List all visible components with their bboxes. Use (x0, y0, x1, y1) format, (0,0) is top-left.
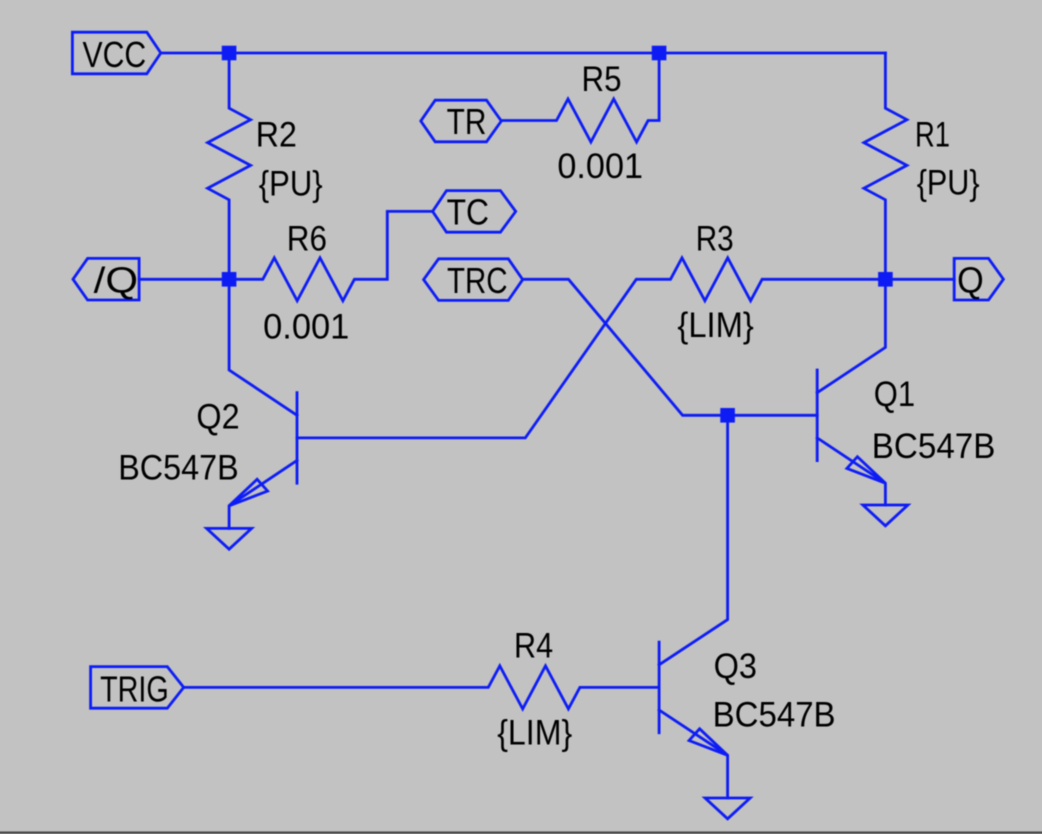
svg-text:0.001: 0.001 (557, 147, 643, 186)
svg-text:{PU}: {PU} (259, 164, 323, 203)
svg-text:Q2: Q2 (196, 398, 239, 437)
svg-text:TRC: TRC (447, 260, 508, 301)
svg-text:TR: TR (447, 101, 487, 142)
svg-text:BC547B: BC547B (713, 696, 836, 735)
svg-text:BC547B: BC547B (118, 448, 239, 487)
svg-text:Q: Q (957, 259, 984, 300)
svg-text:{LIM}: {LIM} (497, 714, 572, 753)
svg-text:R1: R1 (915, 116, 950, 155)
svg-text:TRIG: TRIG (100, 668, 169, 709)
svg-text:R3: R3 (696, 220, 734, 259)
svg-text:R4: R4 (514, 627, 553, 666)
svg-text:BC547B: BC547B (872, 427, 996, 466)
svg-text:{LIM}: {LIM} (677, 306, 754, 345)
svg-text:TC: TC (447, 191, 489, 232)
svg-text:VCC: VCC (83, 34, 147, 75)
svg-text:0.001: 0.001 (263, 307, 349, 346)
svg-text:R2: R2 (256, 116, 297, 155)
svg-text:R6: R6 (287, 219, 327, 258)
svg-text:Q1: Q1 (874, 375, 915, 414)
svg-text:/Q: /Q (94, 259, 138, 300)
svg-text:R5: R5 (582, 60, 622, 99)
svg-text:Q3: Q3 (714, 647, 757, 686)
svg-text:{PU}: {PU} (917, 164, 980, 203)
